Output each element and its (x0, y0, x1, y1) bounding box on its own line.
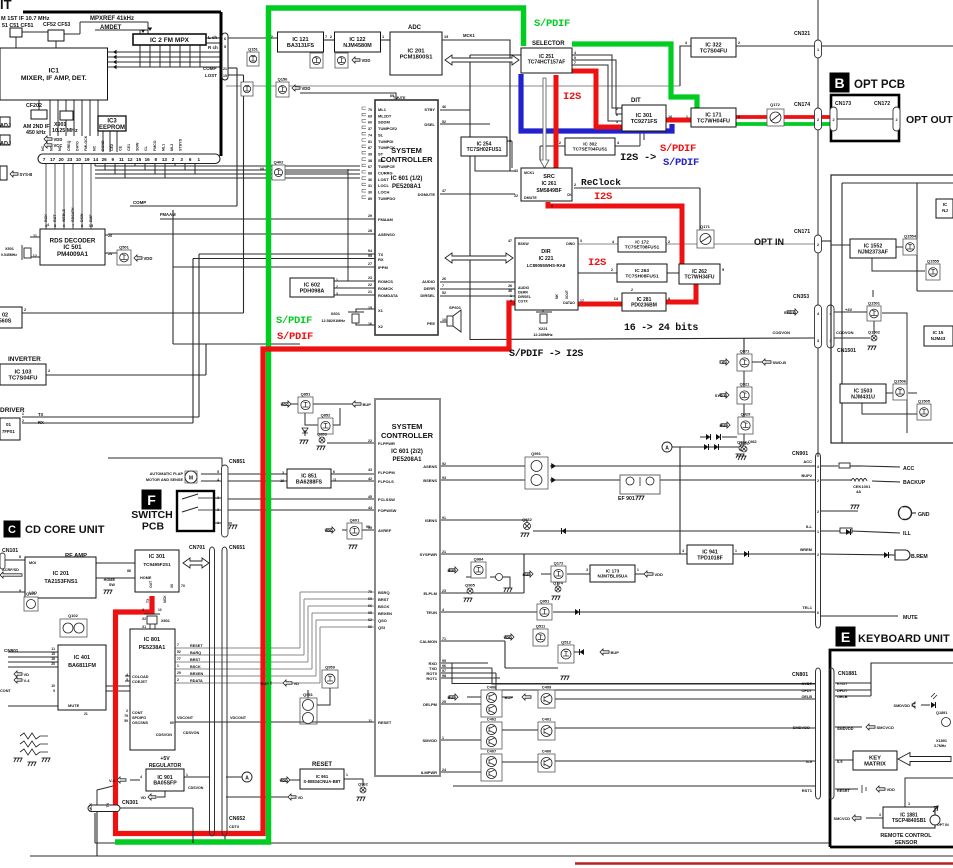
svg-text:IC 103: IC 103 (14, 369, 32, 375)
svg-text:2: 2 (668, 240, 670, 244)
svg-text:X0: X0 (170, 584, 174, 588)
svg-text:ROMDATA: ROMDATA (378, 293, 398, 298)
svg-text:S/PDIF: S/PDIF (276, 315, 312, 327)
svg-text:1: 1 (510, 294, 512, 298)
svg-text:A: A (245, 776, 249, 782)
svg-text:CONTROLLER: CONTROLLER (380, 155, 433, 164)
svg-text:2: 2 (48, 369, 50, 373)
svg-text:CALMON: CALMON (419, 639, 437, 644)
svg-text:TC7S04FU: TC7S04FU (9, 376, 38, 382)
svg-text:IC 601 (1/2): IC 601 (1/2) (391, 176, 423, 182)
svg-text:TC7SET08FUS1: TC7SET08FUS1 (625, 245, 660, 250)
svg-text:LOST: LOST (378, 177, 389, 182)
svg-text:SMDVDD: SMDVDD (837, 727, 854, 731)
svg-text:1: 1 (817, 48, 819, 52)
svg-text:CN171: CN171 (794, 229, 810, 235)
svg-text:11: 11 (51, 647, 55, 651)
svg-text:IC 221: IC 221 (539, 256, 554, 262)
svg-text:17: 17 (580, 299, 584, 303)
svg-text:REGULATOR: REGULATOR (149, 763, 182, 769)
svg-text:RST1: RST1 (802, 788, 813, 793)
svg-text:7: 7 (442, 284, 444, 288)
svg-text:BSCK: BSCK (378, 604, 389, 609)
svg-text:2: 2 (817, 510, 819, 514)
svg-text:CDSVON: CDSVON (183, 731, 200, 735)
svg-text:17: 17 (50, 157, 56, 162)
svg-text:OSCSNS: OSCSNS (132, 721, 149, 725)
svg-text:TC9495F2S1: TC9495F2S1 (143, 562, 171, 567)
svg-text:1: 1 (217, 521, 219, 525)
svg-text:ROMCK: ROMCK (378, 286, 393, 291)
svg-text:15: 15 (51, 652, 55, 656)
svg-text:6V: 6V (722, 360, 727, 365)
svg-text:10: 10 (76, 157, 82, 162)
svg-text:BUP: BUP (363, 402, 372, 407)
svg-text:4: 4 (574, 51, 576, 55)
svg-text:SWITCH: SWITCH (131, 509, 172, 521)
svg-text:SYS-B: SYS-B (20, 172, 33, 177)
svg-text:CN801: CN801 (792, 672, 808, 678)
svg-text:X601: X601 (331, 311, 341, 316)
svg-text:SWD-B: SWD-B (773, 360, 787, 365)
svg-text:BA6288FS: BA6288FS (296, 479, 323, 485)
svg-text:9: 9 (574, 56, 576, 60)
svg-text:450 kHz: 450 kHz (26, 130, 46, 136)
svg-text:NJM431U: NJM431U (851, 394, 875, 400)
svg-text:RDSATK: RDSATK (71, 207, 75, 222)
svg-text:SMCVCD: SMCVCD (834, 817, 851, 821)
svg-text:2: 2 (631, 288, 633, 292)
svg-text:PE5208A1: PE5208A1 (392, 457, 422, 463)
svg-text:87: 87 (368, 146, 372, 150)
svg-text:MOTOR AND SENSE: MOTOR AND SENSE (146, 478, 184, 482)
svg-text:70: 70 (368, 590, 372, 594)
svg-text:22: 22 (368, 283, 372, 287)
svg-text:8: 8 (668, 297, 670, 301)
svg-text:52: 52 (442, 291, 446, 295)
svg-text:CONT: CONT (132, 711, 143, 715)
svg-text:5: 5 (224, 45, 226, 49)
svg-text:C407: C407 (487, 749, 497, 754)
svg-text:1: 1 (22, 412, 24, 416)
svg-text:DMUTE: DMUTE (524, 196, 537, 200)
svg-text:OPT PCB: OPT PCB (854, 79, 905, 91)
svg-text:22: 22 (514, 194, 518, 198)
svg-text:ACC: ACC (903, 466, 914, 472)
svg-text:IC 601 (2/2): IC 601 (2/2) (391, 449, 423, 455)
svg-text:1: 1 (382, 35, 384, 39)
svg-text:VDD: VDD (887, 787, 896, 792)
svg-text:29: 29 (177, 671, 181, 675)
svg-text:IT: IT (0, 0, 12, 12)
svg-text:CE2: CE2 (110, 144, 114, 151)
svg-text:71: 71 (442, 637, 446, 641)
svg-text:Q962: Q962 (358, 782, 369, 787)
svg-text:LOCH: LOCH (378, 190, 389, 195)
svg-text:S/PDIF: S/PDIF (534, 18, 570, 30)
svg-text:5: 5 (54, 224, 56, 228)
svg-text:TUMPDI: TUMPDI (378, 139, 393, 144)
svg-text:BRST: BRST (190, 658, 201, 662)
svg-text:MPXREF 41kHz: MPXREF 41kHz (90, 16, 134, 22)
svg-text:MATRIX: MATRIX (864, 762, 886, 768)
svg-text:ML2: ML2 (170, 144, 174, 151)
svg-text:OPDT: OPDT (801, 689, 812, 693)
svg-text:TX: TX (38, 412, 44, 417)
svg-text:VDD: VDD (302, 86, 311, 91)
svg-text:ML2DT: ML2DT (378, 113, 392, 118)
svg-text:TUMPCE: TUMPCE (378, 164, 395, 169)
svg-text:VDD: VDD (504, 635, 513, 640)
svg-text:OELB: OELB (837, 695, 848, 699)
svg-text:3.7MHz: 3.7MHz (934, 744, 946, 748)
svg-text:ISENS: ISENS (425, 518, 437, 523)
svg-text:F: F (147, 492, 156, 508)
svg-text:36: 36 (368, 178, 372, 182)
svg-text:3: 3 (282, 471, 284, 475)
svg-text:2: 2 (22, 419, 24, 423)
svg-text:CN172: CN172 (874, 101, 890, 107)
svg-text:SYS-B: SYS-B (784, 310, 796, 315)
svg-text:OPT IN: OPT IN (754, 237, 784, 247)
svg-text:KEY: KEY (869, 755, 881, 761)
svg-text:BUP: BUP (720, 423, 729, 428)
svg-text:11: 11 (333, 478, 337, 482)
svg-text:C: C (8, 524, 16, 536)
svg-text:PDH098A: PDH098A (300, 288, 325, 294)
svg-text:26: 26 (102, 157, 108, 162)
svg-text:8: 8 (81, 224, 83, 228)
svg-text:AUDIO: AUDIO (518, 286, 530, 290)
svg-text:9: 9 (142, 608, 144, 612)
svg-text:Q951: Q951 (540, 599, 551, 604)
svg-text:Q172: Q172 (554, 561, 565, 566)
svg-text:MIXER, IF AMP, DET.: MIXER, IF AMP, DET. (21, 75, 87, 82)
svg-text:39: 39 (368, 152, 372, 156)
svg-text:VCC: VCC (281, 402, 290, 407)
svg-text:IC: IC (943, 202, 948, 207)
svg-text:PE5238A1: PE5238A1 (139, 645, 166, 651)
svg-text:I2S: I2S (588, 257, 606, 269)
svg-text:95: 95 (442, 659, 446, 663)
svg-text:HOME: HOME (140, 576, 152, 580)
svg-text:SPDIFG: SPDIFG (132, 716, 146, 720)
svg-text:CN901: CN901 (792, 451, 808, 457)
svg-text:6: 6 (510, 299, 512, 303)
svg-text:26: 26 (442, 277, 446, 281)
svg-text:43: 43 (368, 468, 372, 472)
svg-text:TC7S04FU: TC7S04FU (700, 48, 728, 54)
svg-text:Q156: Q156 (278, 77, 289, 82)
svg-text:CONT: CONT (0, 689, 11, 693)
svg-text:Q991: Q991 (531, 451, 542, 456)
svg-text:4: 4 (817, 465, 819, 469)
svg-text:CN901: CN901 (4, 648, 19, 653)
svg-text:MCK1: MCK1 (463, 33, 476, 38)
svg-text:1: 1 (177, 664, 179, 668)
svg-text:LC89055WHS-RA8: LC89055WHS-RA8 (527, 263, 566, 268)
svg-text:BUP: BUP (448, 568, 457, 573)
svg-text:DIRSEL: DIRSEL (518, 295, 532, 299)
svg-text:8: 8 (19, 555, 21, 559)
svg-text:NC: NC (93, 145, 97, 151)
svg-text:CN174: CN174 (794, 102, 810, 108)
svg-text:12.58291MHz: 12.58291MHz (321, 319, 345, 323)
svg-text:CN1501: CN1501 (837, 348, 856, 354)
svg-text:CN851: CN851 (229, 459, 245, 465)
svg-text:MCK1: MCK1 (524, 171, 534, 175)
svg-text:2: 2 (559, 141, 561, 145)
svg-text:PEE: PEE (427, 321, 435, 326)
svg-text:A: A (665, 446, 669, 452)
svg-text:S/PDIF: S/PDIF (660, 143, 696, 155)
svg-text:CK: CK (567, 193, 572, 197)
svg-text:20: 20 (59, 157, 65, 162)
svg-text:VDD: VDD (325, 528, 334, 533)
svg-text:7: 7 (43, 157, 46, 162)
svg-text:6: 6 (189, 157, 192, 162)
svg-text:+5V: +5V (160, 756, 170, 762)
svg-text:Q102: Q102 (68, 613, 79, 618)
svg-text:36: 36 (508, 289, 512, 293)
svg-text:25: 25 (442, 700, 446, 704)
svg-text:BA05SFP: BA05SFP (153, 781, 177, 787)
svg-text:NL: NL (260, 167, 266, 171)
svg-text:I2S: I2S (594, 191, 612, 203)
svg-text:RESET: RESET (190, 644, 203, 648)
svg-text:7: 7 (325, 35, 327, 39)
svg-text:TSCP4840SB1: TSCP4840SB1 (892, 818, 926, 824)
svg-text:BRXEN: BRXEN (378, 611, 392, 616)
svg-text:19: 19 (444, 35, 448, 39)
svg-text:ADJ: ADJ (0, 123, 11, 129)
svg-text:BRST: BRST (378, 597, 389, 602)
svg-text:ACC: ACC (803, 459, 812, 464)
svg-text:IPPM: IPPM (378, 265, 388, 270)
svg-text:96: 96 (442, 664, 446, 668)
svg-text:16: 16 (145, 157, 151, 162)
svg-text:7: 7 (574, 61, 576, 65)
svg-text:ROMCS: ROMCS (378, 279, 393, 284)
svg-text:STBYD: STBYD (179, 138, 183, 151)
svg-text:IC 201: IC 201 (53, 571, 69, 577)
svg-text:CDTX: CDTX (229, 825, 240, 829)
svg-text:DIR: DIR (541, 249, 551, 255)
svg-text:VD: VD (24, 672, 30, 677)
svg-text:TC7WH04FU: TC7WH04FU (697, 118, 730, 124)
svg-text:V-4: V-4 (109, 778, 116, 783)
svg-text:IC 2 FM MPX: IC 2 FM MPX (150, 37, 190, 44)
svg-text:CONTROLLER: CONTROLLER (381, 431, 434, 440)
svg-text:LOST: LOST (205, 73, 217, 78)
svg-text:23: 23 (442, 589, 446, 593)
svg-text:NJ: NJ (942, 208, 948, 213)
svg-text:2: 2 (832, 118, 834, 122)
svg-text:ML1: ML1 (378, 107, 387, 112)
svg-text:79: 79 (124, 714, 128, 718)
svg-text:4: 4 (682, 549, 684, 553)
svg-text:45: 45 (368, 495, 372, 499)
svg-text:ASENS: ASENS (423, 464, 437, 469)
svg-text:SYSPWR: SYSPWR (420, 552, 437, 557)
svg-text:E: E (841, 629, 850, 645)
svg-text:24: 24 (442, 768, 446, 772)
svg-text:VDD: VDD (280, 778, 289, 783)
svg-text:X1891: X1891 (936, 739, 947, 743)
svg-text:FLPPWR: FLPPWR (378, 441, 395, 446)
svg-text:BSCK: BSCK (190, 665, 201, 669)
svg-text:OELPM: OELPM (423, 702, 438, 707)
svg-text:RX: RX (378, 257, 384, 262)
svg-text:VDCONT: VDCONT (230, 716, 247, 720)
svg-text:HOME: HOME (104, 578, 116, 582)
svg-text:X221: X221 (538, 326, 548, 331)
svg-text:DERR: DERR (424, 286, 435, 291)
svg-text:6: 6 (224, 37, 226, 41)
svg-text:2: 2 (817, 479, 819, 483)
svg-text:9: 9 (112, 157, 115, 162)
svg-text:EEPROM: EEPROM (99, 125, 125, 131)
svg-text:Q1555: Q1555 (927, 259, 940, 264)
svg-text:FCLSSW: FCLSSW (378, 497, 395, 502)
svg-text:Q929: Q929 (741, 412, 752, 417)
svg-text:IC 401: IC 401 (74, 655, 90, 661)
svg-text:VDD: VDD (144, 256, 153, 261)
svg-text:3: 3 (586, 568, 588, 572)
svg-text:97: 97 (442, 669, 446, 673)
svg-text:BA6811FM: BA6811FM (68, 663, 96, 669)
svg-text:MCK: MCK (89, 802, 93, 810)
svg-text:Q1502: Q1502 (868, 330, 881, 335)
svg-text:Q402: Q402 (274, 160, 285, 165)
svg-text:47: 47 (508, 239, 512, 243)
svg-text:TC7SH02FUS1: TC7SH02FUS1 (467, 147, 502, 153)
svg-text:ELPLM: ELPLM (423, 591, 437, 596)
svg-text:2: 2 (817, 553, 819, 557)
svg-text:SL: SL (378, 132, 384, 137)
svg-text:SMDVDD: SMDVDD (793, 725, 810, 730)
svg-text:RESRT: RESRT (837, 789, 851, 793)
svg-text:43: 43 (514, 169, 518, 173)
svg-text:SP601: SP601 (449, 305, 462, 310)
svg-text:28: 28 (368, 229, 372, 233)
svg-text:NJM4580M: NJM4580M (343, 43, 372, 49)
svg-text:CN353: CN353 (793, 294, 809, 300)
svg-text:77: 77 (177, 657, 181, 661)
svg-text:OPT OUT: OPT OUT (906, 114, 953, 126)
svg-text:2: 2 (616, 107, 618, 111)
svg-text:22: 22 (368, 439, 372, 443)
svg-text:14: 14 (93, 157, 99, 162)
svg-text:Q932: Q932 (748, 440, 757, 444)
svg-text:FLPOPM: FLPOPM (378, 470, 395, 475)
svg-text:23: 23 (67, 157, 73, 162)
svg-text:5: 5 (217, 470, 219, 474)
svg-text:2: 2 (336, 285, 338, 289)
svg-text:CODVON: CODVON (772, 330, 790, 335)
svg-text:DGMUTE: DGMUTE (418, 192, 436, 197)
svg-text:16: 16 (668, 115, 672, 119)
svg-text:STBY: STBY (424, 107, 435, 112)
svg-text:RESET: RESET (378, 720, 392, 725)
svg-text:2: 2 (172, 157, 175, 162)
svg-text:Q601: Q601 (350, 518, 361, 523)
svg-text:31: 31 (368, 184, 372, 188)
svg-text:BREM: BREM (800, 547, 812, 552)
svg-text:1: 1 (817, 530, 819, 534)
svg-text:RESET: RESET (312, 762, 332, 768)
svg-text:66: 66 (368, 625, 372, 629)
svg-text:AVREF: AVREF (378, 528, 392, 533)
svg-text:VD: VD (140, 795, 146, 800)
svg-text:ROT1: ROT1 (426, 676, 437, 681)
svg-text:16: 16 (280, 479, 284, 483)
svg-text:0.545MHz: 0.545MHz (1, 253, 17, 257)
svg-text:BSRQ: BSRQ (378, 590, 390, 595)
svg-text:Q984: Q984 (474, 557, 485, 562)
svg-text:COLOAD: COLOAD (132, 675, 149, 679)
svg-text:MUTE: MUTE (903, 615, 918, 621)
svg-text:NC: NC (50, 145, 54, 151)
svg-text:RX: RX (38, 420, 44, 425)
svg-text:Q959: Q959 (325, 665, 336, 670)
svg-text:CURRG: CURRG (378, 171, 393, 176)
svg-text:SDDM: SDDM (378, 120, 390, 125)
svg-text:CN1881: CN1881 (838, 671, 857, 677)
svg-text:C401: C401 (542, 717, 552, 722)
svg-text:1: 1 (637, 568, 639, 572)
svg-text:3: 3 (817, 339, 819, 343)
svg-text:FMAAM: FMAAM (378, 217, 394, 222)
svg-text:CDSVON: CDSVON (156, 733, 173, 737)
svg-text:VDCONT: VDCONT (177, 716, 194, 720)
svg-text:MCK: MCK (163, 595, 167, 603)
svg-text:98: 98 (442, 674, 446, 678)
svg-text:Q172: Q172 (770, 102, 781, 107)
svg-text:4: 4 (616, 120, 618, 124)
svg-text:EF 901: EF 901 (618, 496, 635, 502)
svg-text:Q905: Q905 (465, 583, 476, 588)
svg-text:FOPWSW: FOPWSW (378, 508, 397, 513)
svg-text:65: 65 (368, 611, 372, 615)
svg-text:7: 7 (177, 643, 179, 647)
svg-text:SM5849BF: SM5849BF (536, 188, 561, 194)
svg-text:3: 3 (879, 813, 881, 817)
svg-text:TA2153FNS1: TA2153FNS1 (44, 579, 77, 585)
svg-text:44: 44 (368, 506, 372, 510)
svg-text:SMCVCD: SMCVCD (877, 725, 894, 730)
svg-text:51 C51 CF51: 51 C51 CF51 (2, 23, 34, 29)
svg-text:WEBLE: WEBLE (62, 208, 66, 222)
svg-text:2: 2 (817, 118, 819, 122)
svg-text:37: 37 (368, 127, 372, 131)
svg-text:COTX: COTX (518, 300, 528, 304)
svg-text:Q171: Q171 (700, 224, 711, 229)
svg-text:70: 70 (181, 584, 185, 588)
svg-text:69: 69 (170, 721, 174, 725)
svg-text:TPD1018F: TPD1018F (697, 555, 723, 561)
svg-text:OPT IN: OPT IN (937, 823, 949, 827)
svg-text:ReClock: ReClock (581, 177, 621, 188)
svg-text:4: 4 (140, 775, 142, 779)
svg-text:66: 66 (127, 569, 131, 573)
svg-text:11: 11 (368, 719, 372, 723)
svg-text:1: 1 (908, 802, 910, 806)
svg-text:TX: TX (106, 802, 110, 807)
svg-text:TEL1: TEL1 (802, 605, 813, 610)
svg-text:COMP: COMP (133, 200, 146, 205)
svg-text:19: 19 (223, 74, 227, 78)
